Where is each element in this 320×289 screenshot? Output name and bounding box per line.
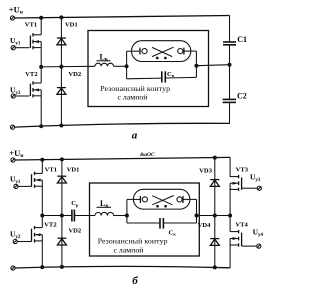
svg-text:Резонансный контур: Резонансный контур xyxy=(98,237,168,246)
svg-text:VD4: VD4 xyxy=(198,222,212,229)
node lamp loop right (a) xyxy=(194,64,198,68)
svg-text:Uу4: Uу4 xyxy=(253,228,264,239)
node VD1/VD2 midpoint (b) xyxy=(60,214,64,218)
transistor VT2 xyxy=(25,67,41,127)
svg-text:VT1: VT1 xyxy=(25,21,37,28)
wire loop left vertical (b) xyxy=(126,199,128,223)
node VD1/VD2 midpoint xyxy=(59,65,63,69)
svg-text:C2: C2 xyxy=(237,91,247,100)
wire loop right vertical (a) xyxy=(195,51,197,77)
wire Uy2 gate lead xyxy=(15,95,29,97)
diode VD1 xyxy=(57,17,78,66)
svg-text:Uу2: Uу2 xyxy=(10,230,21,241)
wire lamp right lead (a) xyxy=(184,50,197,52)
wire loop bottom right segment (b) xyxy=(163,222,196,224)
transistor VT1 (b) xyxy=(32,160,58,216)
wire Uy1 gate lead xyxy=(15,47,29,49)
svg-text:а: а xyxy=(132,130,138,142)
wire Uy3 gate lead (b) xyxy=(242,187,258,189)
wire bottom rail (circuit a) xyxy=(14,123,230,127)
wire Cp to block (b) xyxy=(74,215,95,217)
node VT1/VT2 midpoint (b) xyxy=(40,214,44,218)
capacitor C2 xyxy=(223,91,247,102)
terminal Uy2 (b) xyxy=(13,239,17,243)
wire loop left vertical (a) xyxy=(126,51,128,79)
node lamp loop right (b) xyxy=(195,214,199,218)
terminal Uy1 (b) xyxy=(14,184,18,188)
wire top rail (circuit a) xyxy=(14,16,229,19)
diode VD1 (b) xyxy=(57,159,79,215)
svg-text:Cк: Cк xyxy=(167,71,175,78)
node lamp loop left (a) xyxy=(125,64,129,68)
wire Uy2 gate lead (b) xyxy=(17,241,32,243)
terminal Uy3 (b) xyxy=(257,186,261,190)
wire midpoint to resonant block xyxy=(41,65,95,68)
wire loop bottom right segment (a) xyxy=(165,76,196,79)
svg-text:+Uн: +Uн xyxy=(9,148,24,159)
resonant block box (circuit b) xyxy=(90,183,200,256)
svg-text:VD2: VD2 xyxy=(68,228,82,235)
transistor VT4 (b) xyxy=(230,216,248,268)
svg-text:VD1: VD1 xyxy=(67,166,80,173)
svg-text:VT3: VT3 xyxy=(236,167,249,174)
transistor VT1 xyxy=(25,18,41,67)
node bottom rail / VD2 xyxy=(59,124,63,128)
inductor Lk (circuit a) xyxy=(95,52,114,66)
inductor Lk (circuit b) xyxy=(95,199,114,216)
capacitor Ck (circuit b) xyxy=(160,218,176,237)
wire block output to capacitor midpoint (a) xyxy=(196,65,229,66)
wire coil to loop node (b) xyxy=(114,215,127,217)
wire top rail (circuit b) xyxy=(15,157,230,160)
svg-text:VD2: VD2 xyxy=(68,71,82,78)
wire C2 to bottom rail xyxy=(229,102,231,123)
terminal +Un (circuit b) xyxy=(11,158,15,162)
wire loop top to lamp (b) xyxy=(127,198,140,200)
svg-text:VD1: VD1 xyxy=(65,22,78,29)
wire loop right vertical (b) xyxy=(196,199,198,223)
node bottom rail / VD4 (b) xyxy=(213,265,217,269)
terminal Uy2 xyxy=(11,94,15,98)
svg-text:VT1: VT1 xyxy=(45,166,57,173)
node top rail / VD1 xyxy=(59,15,63,19)
node bottom rail / VT2 source xyxy=(39,124,43,128)
wire loop bottom left segment (a) xyxy=(127,77,162,80)
terminal Uy1 xyxy=(11,46,15,50)
node VT3/VT4 midpoint (b) xyxy=(228,214,232,218)
node VD3/VD4 midpoint (b) xyxy=(213,214,217,218)
node lamp loop left (b) xyxy=(125,214,129,218)
transistor VT3 (b) xyxy=(230,157,249,215)
node VT1/VT2 midpoint xyxy=(39,65,43,69)
lamp EL (circuit a) xyxy=(132,41,191,62)
wire block output to right bridge (b) xyxy=(197,215,231,217)
lamp EL (circuit b) xyxy=(133,189,190,209)
transistor VT2 (b) xyxy=(32,216,58,268)
svg-text:VT4: VT4 xyxy=(235,221,248,228)
svg-text:C1: C1 xyxy=(237,35,247,44)
resonant block box (circuit a) xyxy=(88,31,209,107)
terminal bottom left (circuit b) xyxy=(11,266,15,270)
svg-text:+Uн: +Uн xyxy=(9,4,24,15)
svg-text:Cр: Cр xyxy=(71,200,79,207)
svg-text:с лампой: с лампой xyxy=(118,92,148,101)
wire bottom rail (circuit b) xyxy=(15,266,230,268)
svg-text:VT2: VT2 xyxy=(25,71,38,78)
wire lamp right lead (b) xyxy=(183,198,197,200)
node top rail / VT1 drain xyxy=(39,16,43,20)
wire Uy4 gate lead (b) xyxy=(242,245,257,247)
wire Uy1 gate lead (b) xyxy=(18,185,32,187)
node top rail / VD3 (b) xyxy=(213,156,217,160)
svg-text:Uу1: Uу1 xyxy=(10,175,21,186)
terminal +Un (circuit a) xyxy=(10,16,14,20)
node C1/C2 midpoint xyxy=(228,63,232,67)
wire C1 to midpoint xyxy=(229,45,231,100)
capacitor C1 xyxy=(223,35,247,45)
svg-text:&аОС: &аОС xyxy=(140,152,155,158)
capacitor Cp (b) xyxy=(71,200,79,221)
node bottom rail / VT2 source (b) xyxy=(40,265,44,269)
svg-text:Cк: Cк xyxy=(169,229,177,236)
node top rail / VT1 drain (b) xyxy=(40,158,44,162)
capacitor Ck (circuit a) xyxy=(162,71,175,83)
node top rail / VD1 (b) xyxy=(60,157,64,161)
wire C1/C2 branch top (a) xyxy=(229,16,231,43)
svg-text:с лампой: с лампой xyxy=(114,245,144,254)
svg-text:VT2: VT2 xyxy=(44,221,57,228)
svg-text:б: б xyxy=(132,275,138,287)
diode VD2 xyxy=(57,67,82,126)
terminal bottom left (circuit a) xyxy=(10,125,14,129)
wire loop top to lamp (a) xyxy=(127,50,140,52)
svg-text:VD3: VD3 xyxy=(199,168,213,175)
wire midpoint to Cp (b) xyxy=(42,215,72,217)
svg-text:Uу3: Uу3 xyxy=(250,172,261,183)
terminal Uy4 (b) xyxy=(257,244,261,248)
wire loop bottom left segment (b) xyxy=(127,222,160,224)
wire coil to loop node (a) xyxy=(114,65,127,67)
svg-text:Uу1: Uу1 xyxy=(10,36,21,47)
diode VD4 (b) xyxy=(198,216,220,268)
node bottom rail / VD2 (b) xyxy=(60,265,64,269)
diode VD2 (b) xyxy=(57,216,82,268)
diode VD3 (b) xyxy=(199,158,219,216)
